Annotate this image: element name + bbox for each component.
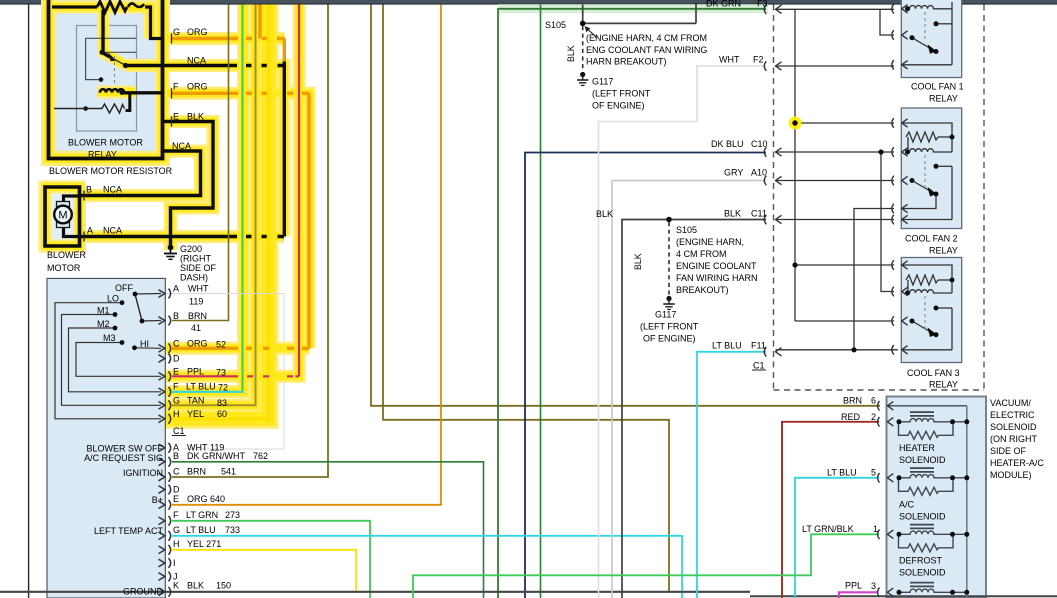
svg-text:F: F (173, 510, 179, 520)
highlight glow (outer halo) for traced blower circuit (45, 0, 309, 419)
svg-text:A/C REQUEST SIG: A/C REQUEST SIG (84, 453, 163, 463)
svg-text:G200: G200 (180, 244, 202, 254)
svg-text:C10: C10 (751, 139, 768, 149)
wire DK GRN F3 (498, 9, 766, 598)
svg-text:LEFT TEMP ACT: LEFT TEMP ACT (94, 526, 164, 536)
svg-text:3: 3 (871, 581, 876, 591)
svg-text:NCA: NCA (187, 56, 206, 66)
switch position wires LO M1 M2 M3 (55, 303, 161, 419)
wire A NCA row (80, 235, 284, 238)
svg-text:BLK: BLK (187, 112, 204, 122)
ground G117 (577, 72, 588, 86)
wire G LT BLU 733 (172, 536, 682, 598)
svg-text:SOLENOID: SOLENOID (899, 512, 946, 522)
wire F LT GRN 273 (172, 521, 370, 598)
svg-text:C1: C1 (753, 361, 765, 371)
blower motor box border (45, 187, 80, 246)
svg-text:(LEFT FRONT: (LEFT FRONT (592, 89, 651, 99)
main resistor element (52, 2, 162, 39)
ground G117 second (663, 296, 674, 310)
svg-text:LT BLU: LT BLU (712, 341, 742, 351)
relay 3 pins (892, 260, 908, 270)
glow: DK GRN F3 highlighted row (pale green) (498, 4, 768, 13)
svg-text:NCA: NCA (103, 185, 122, 195)
svg-text:TAN: TAN (187, 396, 204, 406)
cool fan 2 relay box (901, 108, 961, 229)
ground G200 (164, 245, 177, 260)
svg-text:S105: S105 (545, 20, 566, 30)
svg-text:LT BLU: LT BLU (186, 525, 216, 535)
wire LT BLU F11 path (697, 352, 766, 598)
node F11 branch (851, 347, 856, 352)
switch arm OFF-LO (135, 294, 142, 321)
svg-text:(ENGINE HARN,: (ENGINE HARN, (676, 237, 744, 247)
svg-text:72: 72 (218, 383, 228, 393)
svg-text:NCA: NCA (103, 226, 122, 236)
svg-text:HARN BREAKOUT): HARN BREAKOUT) (586, 57, 667, 67)
wire LT BLU 5 (795, 478, 879, 598)
svg-text:SIDE OF: SIDE OF (180, 263, 217, 273)
svg-text:BREAKOUT): BREAKOUT) (676, 285, 729, 295)
svg-text:(ENGINE HARN, 4 CM FROM: (ENGINE HARN, 4 CM FROM (586, 33, 707, 43)
svg-text:ELECTRIC: ELECTRIC (990, 410, 1035, 420)
node C10 branch (878, 149, 883, 154)
svg-text:D: D (173, 354, 180, 364)
svg-text:SIDE OF: SIDE OF (990, 446, 1027, 456)
svg-text:M1: M1 (97, 306, 110, 316)
svg-text:MODULE): MODULE) (990, 470, 1032, 480)
svg-text:6: 6 (871, 396, 876, 406)
svg-text:BLOWER SW OFF: BLOWER SW OFF (87, 444, 164, 454)
relay switch feed vertical (101, 10, 104, 52)
svg-text:G117: G117 (655, 310, 676, 320)
svg-text:RELAY: RELAY (88, 150, 117, 160)
svg-text:BRN: BRN (188, 311, 207, 321)
svg-text:MOTOR: MOTOR (47, 263, 81, 273)
svg-text:M3: M3 (103, 333, 116, 343)
relay coil (100, 89, 124, 92)
pale outline box around connector C1 rows (166, 294, 284, 450)
svg-text:VACUUM/: VACUUM/ (990, 398, 1031, 408)
wire PPL 3 (839, 592, 877, 598)
svg-text:C1: C1 (173, 426, 185, 436)
svg-text:FAN WIRING HARN: FAN WIRING HARN (676, 273, 758, 283)
svg-text:(LEFT FRONT: (LEFT FRONT (640, 322, 699, 332)
blower motor resistor box (light blue, highlighted border) (49, 0, 163, 158)
svg-text:WHT: WHT (188, 284, 209, 294)
svg-text:60: 60 (217, 409, 227, 419)
svg-text:4 CM FROM: 4 CM FROM (676, 249, 727, 259)
svg-text:DK GRN: DK GRN (706, 0, 741, 9)
svg-text:YEL: YEL (187, 409, 204, 419)
wire BRN 41 vertical (172, 5, 229, 321)
splice 2 dashed BLK to ground (668, 222, 670, 295)
svg-text:73: 73 (216, 368, 226, 378)
svg-text:BRN: BRN (843, 396, 862, 406)
svg-text:2: 2 (871, 412, 876, 422)
svg-text:SOLENOID: SOLENOID (899, 455, 946, 465)
svg-text:C: C (173, 467, 180, 477)
svg-text:M: M (58, 210, 67, 222)
blower motor M symbol (54, 206, 72, 224)
svg-text:41: 41 (191, 323, 201, 333)
wire A WHT 119 pale outline (172, 293, 284, 295)
vacuum/electric solenoid box (887, 397, 987, 598)
svg-text:5: 5 (871, 468, 876, 478)
solenoid feed bus (966, 406, 968, 598)
svg-text:PPL: PPL (187, 367, 204, 377)
svg-text:BLOWER MOTOR RESISTOR: BLOWER MOTOR RESISTOR (49, 166, 173, 176)
svg-text:F3: F3 (757, 0, 768, 9)
svg-text:DEFROST: DEFROST (899, 556, 943, 566)
wire G ORG row (172, 5, 285, 64)
connector C1 blower switch pins A-H (159, 289, 171, 299)
svg-text:A10: A10 (751, 168, 767, 178)
svg-text:A: A (173, 284, 179, 294)
svg-text:D: D (173, 485, 180, 495)
svg-text:G: G (173, 396, 180, 406)
wire E BLK path to G200 (162, 122, 213, 248)
wire C ORG dashes over band (172, 347, 309, 350)
wire NCA row to splice (126, 62, 285, 237)
left page border line (28, 5, 30, 598)
relay 1 pins (892, 4, 908, 14)
svg-text:GRY: GRY (724, 168, 743, 178)
svg-text:A: A (87, 226, 93, 236)
wire E ORG 640 (172, 5, 441, 505)
blower motor brush caps (57, 202, 70, 207)
wire E PPL (298, 5, 300, 377)
cool fan 1 relay box (901, 0, 961, 78)
svg-text:ENG COOLANT FAN WIRING: ENG COOLANT FAN WIRING (586, 45, 707, 55)
svg-text:ORG: ORG (187, 339, 208, 349)
svg-text:E: E (173, 494, 179, 504)
svg-text:G: G (173, 27, 180, 37)
wire LT GRN vertical to F LT BLU row (242, 5, 244, 392)
svg-text:E: E (173, 367, 179, 377)
svg-text:SOLENOID: SOLENOID (899, 568, 946, 578)
wire H YEL (172, 5, 269, 419)
blower switch assembly box (47, 278, 165, 598)
node relay fixed contact (99, 77, 104, 82)
node relay3 coil feed (792, 262, 797, 267)
svg-text:WHT: WHT (719, 55, 740, 65)
svg-text:OF ENGINE): OF ENGINE) (592, 101, 645, 111)
svg-text:F2: F2 (753, 55, 764, 65)
relay switch arm (102, 51, 137, 53)
svg-text:YEL 271: YEL 271 (187, 539, 221, 549)
wire BLK C11 path (622, 220, 766, 598)
svg-text:HEATER: HEATER (899, 443, 935, 453)
svg-text:NCA: NCA (172, 141, 191, 151)
heater solenoid (899, 412, 967, 439)
svg-text:K: K (173, 581, 179, 591)
svg-text:(ON RIGHT: (ON RIGHT (990, 434, 1037, 444)
svg-text:GROUND: GROUND (123, 587, 163, 597)
wire BRN 6 inside (887, 405, 967, 407)
fourth solenoid (PPL) (899, 583, 967, 593)
wire F LT BLU row (172, 391, 244, 393)
svg-text:BLK: BLK (724, 209, 741, 219)
svg-text:ORG: ORG (187, 27, 208, 37)
blower motor box (45, 187, 80, 246)
svg-text:ORG: ORG (187, 494, 208, 504)
blower motor leads (64, 196, 80, 237)
svg-text:273: 273 (225, 510, 240, 520)
wire LT GRN/BLK 1 (413, 534, 879, 598)
svg-text:G: G (173, 525, 180, 535)
wire BRN link via x669 (383, 5, 669, 592)
svg-text:ENGINE COOLANT: ENGINE COOLANT (676, 261, 757, 271)
top window band (0, 0, 1057, 3)
svg-text:BLK: BLK (566, 45, 576, 62)
svg-text:(RIGHT: (RIGHT (180, 254, 211, 264)
svg-text:G117: G117 (592, 77, 613, 87)
svg-text:DK BLU: DK BLU (711, 139, 744, 149)
svg-text:OFF: OFF (115, 283, 133, 293)
svg-text:LT GRN/BLK: LT GRN/BLK (802, 524, 854, 534)
wire K BLK 150 (0, 591, 750, 593)
svg-text:733: 733 (225, 525, 240, 535)
svg-text:E: E (173, 112, 179, 122)
wire NCA2 to blower motor B (80, 151, 201, 196)
wire H YEL 271 (172, 550, 356, 591)
svg-text:RELAY: RELAY (929, 94, 958, 104)
svg-text:B: B (86, 185, 92, 195)
wire BLK bottom right (750, 595, 1057, 597)
svg-text:BLK: BLK (596, 209, 613, 219)
svg-text:BLK: BLK (633, 253, 643, 270)
svg-text:C11: C11 (751, 209, 767, 219)
svg-text:F11: F11 (751, 341, 766, 351)
wire RED 2 (782, 422, 879, 598)
svg-text:B+: B+ (152, 495, 163, 505)
relay coil dashed link (114, 56, 116, 86)
wire DK BLU C10 (525, 153, 766, 598)
svg-text:PPL: PPL (845, 581, 862, 591)
svg-text:F: F (173, 382, 179, 392)
svg-text:DASH): DASH) (180, 273, 208, 283)
wire F ORG row (172, 93, 309, 348)
svg-text:HI: HI (140, 339, 149, 349)
a/c solenoid (899, 468, 967, 495)
svg-text:SOLENOID: SOLENOID (990, 422, 1037, 432)
relay 2 pins (892, 118, 908, 128)
svg-text:RELAY: RELAY (929, 246, 958, 256)
svg-text:762: 762 (253, 451, 268, 461)
svg-text:DK GRN/WHT: DK GRN/WHT (187, 451, 245, 461)
wire BRN 541 (172, 5, 328, 478)
svg-text:LT BLU: LT BLU (186, 382, 216, 392)
svg-text:IGNITION: IGNITION (123, 468, 163, 478)
svg-text:52: 52 (216, 340, 226, 350)
svg-text:B: B (173, 311, 179, 321)
node yellow highlighted junction (789, 117, 802, 130)
connector C2 blower switch pins A-K (159, 443, 171, 453)
svg-text:M2: M2 (97, 319, 110, 329)
C1 label underlines (172, 435, 186, 437)
svg-text:A/C: A/C (899, 500, 915, 510)
defrost solenoid (899, 525, 967, 552)
svg-text:B: B (173, 451, 179, 461)
resistor box border (highlighted wire) (49, 0, 163, 159)
svg-text:RED: RED (841, 412, 861, 422)
cool fan 3 relay box (901, 258, 961, 363)
svg-text:H: H (173, 409, 180, 419)
svg-text:COOL FAN 1: COOL FAN 1 (911, 82, 964, 92)
svg-text:LT BLU: LT BLU (827, 468, 857, 478)
svg-text:BLK: BLK (187, 581, 204, 591)
svg-text:I: I (173, 558, 176, 568)
wire WHT F2 path (599, 66, 767, 598)
svg-text:COOL FAN 2: COOL FAN 2 (905, 234, 958, 244)
wire GRY A10 path (612, 181, 766, 598)
harness connector pins F3 F2 C10 A10 C11 F11 (764, 5, 781, 15)
highlight glow (inner core) for traced blower circuit (45, 0, 309, 419)
svg-text:F: F (173, 82, 179, 92)
svg-text:541: 541 (221, 467, 236, 477)
svg-text:OF ENGINE): OF ENGINE) (643, 334, 696, 344)
wire BRN 6 to heater solenoid (371, 5, 880, 406)
svg-text:1: 1 (873, 524, 878, 534)
B row stub (142, 320, 161, 323)
OFF wire to A (135, 293, 161, 296)
svg-text:C: C (173, 339, 180, 349)
svg-text:640: 640 (210, 494, 225, 504)
svg-text:BRN: BRN (187, 467, 206, 477)
svg-text:ORG: ORG (187, 82, 208, 92)
svg-text:LT GRN: LT GRN (186, 510, 218, 520)
svg-text:RELAY: RELAY (929, 380, 958, 390)
svg-text:LO: LO (107, 294, 119, 304)
splice S105 dashed BLK to ground (582, 26, 584, 71)
svg-text:HEATER-A/C: HEATER-A/C (990, 458, 1044, 468)
resistor box pin ticks (84, 34, 172, 242)
svg-text:H: H (173, 539, 180, 549)
svg-text:119: 119 (189, 297, 203, 307)
blower motor relay inner box (77, 26, 137, 132)
wire DK GRN/WHT 762 (172, 462, 484, 598)
wire G TAN (172, 5, 256, 406)
svg-text:150: 150 (216, 581, 231, 591)
HI wire to C (135, 347, 162, 350)
relay resistor (102, 104, 125, 113)
svg-text:COOL FAN 3: COOL FAN 3 (907, 368, 960, 378)
relay contact feed (thin) (86, 38, 137, 79)
wire DK GRN vertical 540 (540, 5, 542, 598)
solenoid pins 6 2 5 1 3 (878, 401, 894, 411)
svg-text:BLOWER: BLOWER (47, 250, 87, 260)
svg-text:S105: S105 (676, 225, 697, 235)
svg-text:83: 83 (217, 398, 227, 408)
svg-text:BLOWER MOTOR: BLOWER MOTOR (68, 138, 143, 148)
